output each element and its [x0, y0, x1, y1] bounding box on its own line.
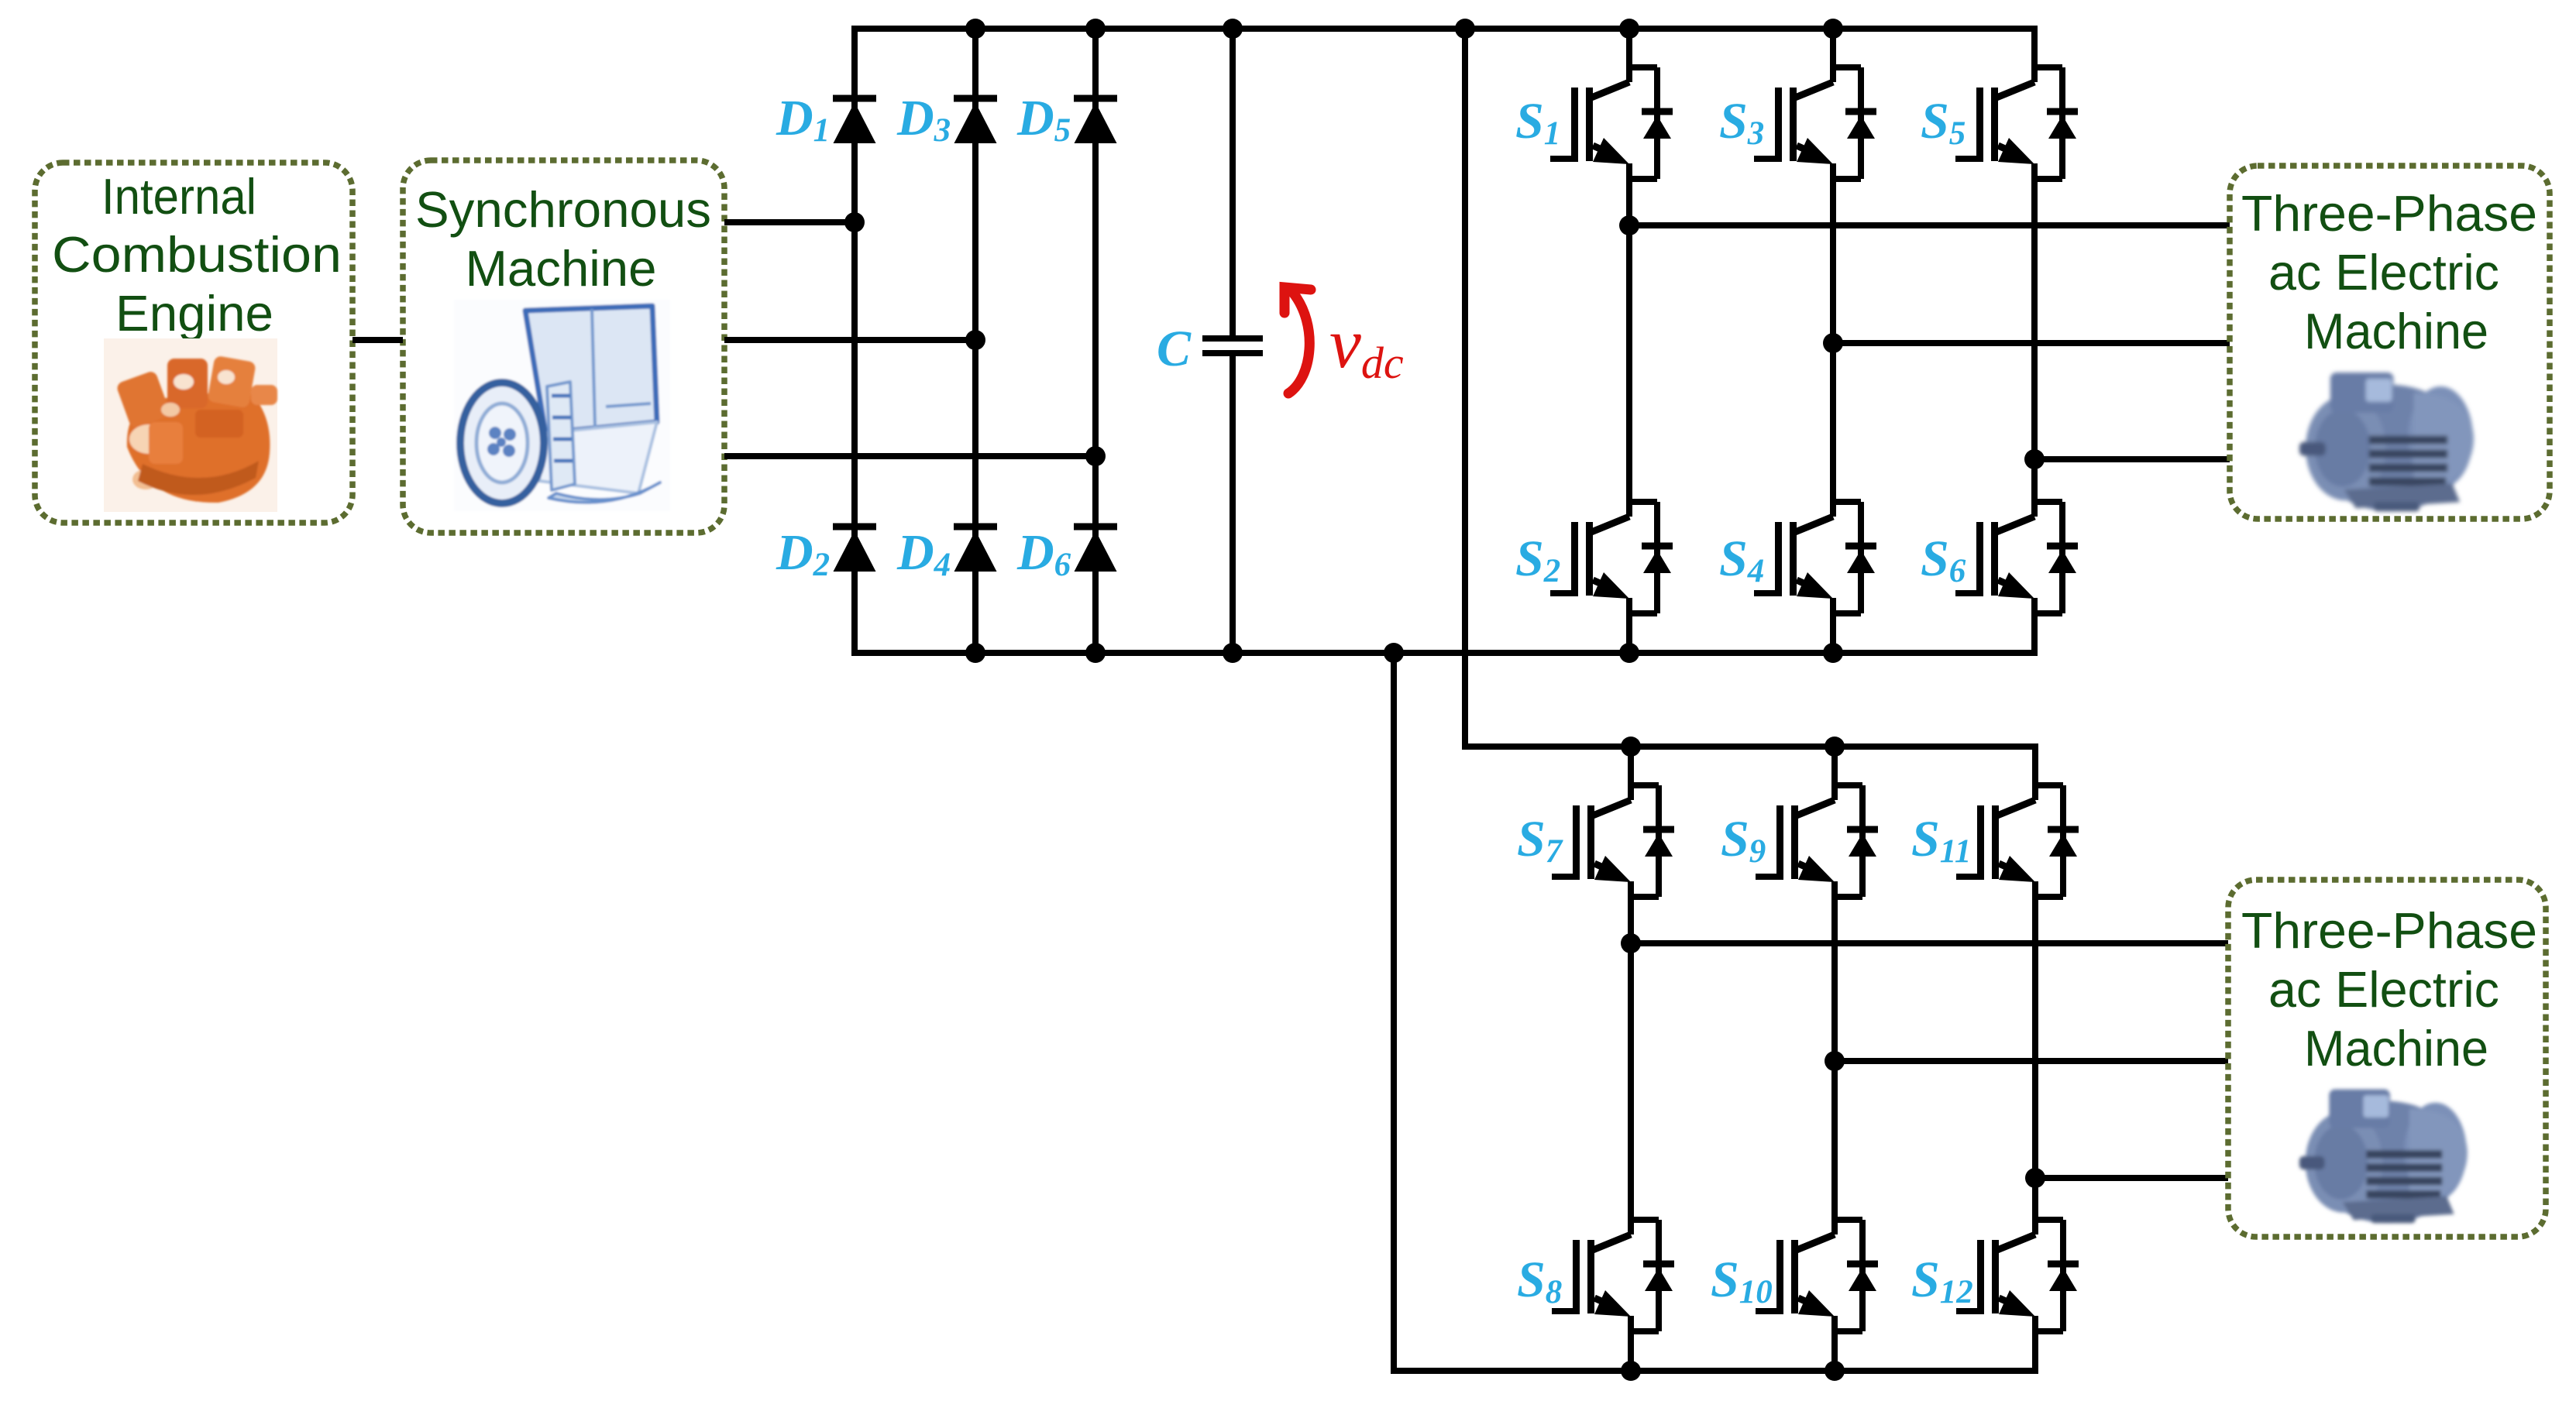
svg-text:Three-Phase: Three-Phase — [2241, 902, 2537, 959]
diode D4 — [896, 524, 997, 583]
block box: Synchronous Machine — [403, 160, 724, 533]
svg-text:Engine: Engine — [115, 285, 273, 342]
node phase b rectifier — [965, 330, 985, 350]
node lower bottom rail leg1 — [1621, 1361, 1641, 1381]
node lower bottom rail leg2 — [1825, 1361, 1845, 1381]
wire upper phase c — [2034, 456, 2230, 462]
transistor S5 — [1921, 67, 2078, 179]
transistor S9 — [1721, 785, 1878, 897]
wire phase a generator — [724, 219, 855, 225]
wire rectifier leg 3 — [1092, 29, 1099, 653]
wire lower phase c — [2035, 1175, 2228, 1181]
wire lower inverter leg 3 — [2032, 747, 2038, 800]
transistor S6 — [1921, 502, 2078, 613]
wire phase b generator — [724, 337, 975, 343]
wire lower inverter leg 2 — [1831, 747, 1838, 800]
node lower phase a — [1621, 933, 1641, 953]
engine image — [104, 338, 277, 512]
node lower top rail leg2 — [1825, 737, 1845, 757]
svg-text:Machine: Machine — [2304, 1020, 2488, 1077]
label upper three-phase machine — [2241, 185, 2537, 359]
wire lower inverter leg 1 — [1628, 747, 1634, 800]
diode D1 — [776, 90, 876, 149]
transistor S10 — [1711, 1220, 1878, 1331]
wire lower phase b — [1835, 1058, 2228, 1064]
svg-text:ac Electric: ac Electric — [2268, 961, 2499, 1018]
wire dc bus bottom — [855, 650, 2034, 656]
wire dc bus top — [855, 26, 2034, 32]
transistor S4 — [1719, 502, 1876, 613]
wire rectifier leg 2 — [972, 29, 978, 653]
node top bus leg2 — [1823, 19, 1843, 39]
svg-text:Machine: Machine — [466, 240, 657, 297]
wire top bus to lower inverter — [1462, 29, 1468, 747]
capacitor C — [1157, 29, 1263, 653]
wire lower inverter bus bottom — [1394, 1368, 2035, 1374]
diode D2 — [776, 524, 876, 583]
block box: upper three-phase ac electric machine — [2230, 166, 2550, 519]
node top bus leg1 — [1619, 19, 1639, 39]
motor image upper — [2299, 373, 2474, 511]
node lower phase c — [2025, 1168, 2045, 1188]
node bottom bus leg2 — [1823, 643, 1843, 663]
node bus top cap — [1223, 19, 1243, 39]
transistor S2 — [1515, 502, 1673, 613]
node bus bottom col3 — [1085, 643, 1106, 663]
vdc arrow — [1285, 287, 1311, 393]
transistor S3 — [1719, 67, 1876, 179]
node upper phase a — [1619, 215, 1639, 235]
wire upper inverter leg 1 — [1626, 29, 1632, 82]
wire upper inverter leg 3 — [2031, 29, 2038, 82]
wire lower inverter bus top — [1465, 743, 2035, 750]
diode D6 — [1016, 524, 1117, 583]
label Internal Combustion Engine — [52, 168, 342, 342]
motor image lower — [2299, 1089, 2468, 1223]
svg-text:Three-Phase: Three-Phase — [2241, 185, 2537, 242]
transistor S1 — [1515, 67, 1673, 179]
transistor S8 — [1517, 1220, 1674, 1331]
node bus bottom col2 — [965, 643, 985, 663]
node bus top col3 — [1085, 19, 1106, 39]
label Synchronous Machine — [415, 181, 711, 297]
block box: lower three-phase ac electric machine — [2228, 880, 2546, 1237]
wire upper phase b — [1833, 340, 2230, 346]
svg-text:ac Electric: ac Electric — [2268, 244, 2499, 300]
node bus top col2 — [965, 19, 985, 39]
node bottom bus leg1 — [1619, 643, 1639, 663]
transistor S12 — [1911, 1220, 2079, 1331]
svg-text:Internal: Internal — [101, 168, 256, 225]
label lower three-phase machine — [2241, 902, 2537, 1077]
node phase c rectifier — [1085, 446, 1106, 466]
node top bus branch — [1455, 19, 1475, 39]
svg-text:Synchronous: Synchronous — [415, 181, 711, 238]
node lower top rail leg1 — [1621, 737, 1641, 757]
wire phase c generator — [724, 453, 1095, 459]
node bottom bus branch — [1384, 643, 1404, 663]
node lower phase b — [1825, 1051, 1845, 1071]
svg-text:C: C — [1157, 321, 1192, 377]
node bus bottom cap — [1223, 643, 1243, 663]
diode D5 — [1016, 90, 1117, 149]
synchronous machine image — [454, 300, 670, 511]
node upper phase c — [2024, 449, 2045, 469]
transistor S11 — [1911, 785, 2079, 897]
svg-text:Machine: Machine — [2304, 303, 2488, 359]
wire upper phase a — [1629, 222, 2230, 228]
wire lower phase a — [1631, 940, 2228, 946]
node phase a rectifier — [844, 212, 865, 232]
wire engine to machine — [353, 337, 403, 343]
transistor S7 — [1517, 785, 1674, 897]
svg-text:Combustion: Combustion — [52, 226, 342, 283]
node upper phase b — [1823, 333, 1843, 353]
block box: Internal Combustion Engine — [35, 163, 353, 523]
diode D3 — [896, 90, 997, 149]
wire bottom bus to lower inverter — [1391, 653, 1397, 1371]
wire rectifier leg 1 — [851, 26, 858, 656]
wire upper inverter leg 2 — [1830, 29, 1836, 82]
